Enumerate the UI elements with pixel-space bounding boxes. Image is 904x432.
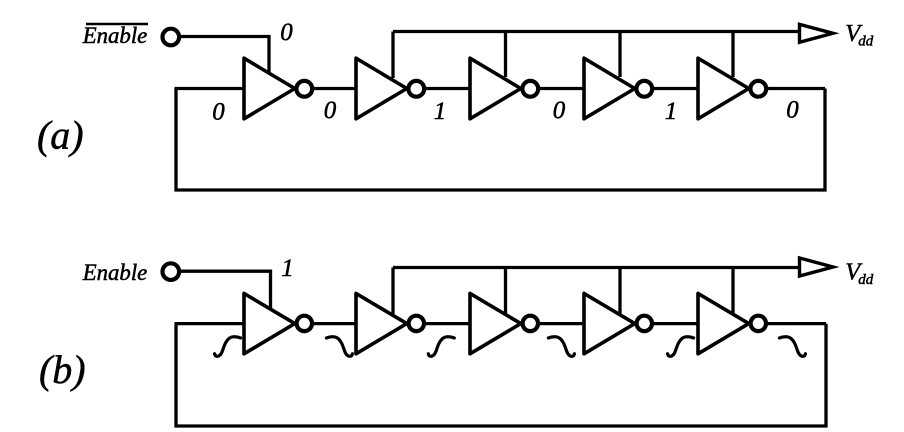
waveform falling (net 1b)	[326, 337, 352, 357]
inverter U4a	[584, 58, 652, 119]
power drop to U4b	[618, 268, 621, 315]
inverter U1b	[244, 293, 312, 353]
Vdd label (b)	[845, 259, 874, 289]
svg-text:(b): (b)	[39, 347, 86, 392]
wire U1a to U2a	[312, 87, 356, 90]
svg-text:0: 0	[324, 97, 337, 124]
terminal pad (a)	[163, 29, 180, 46]
power drop to U5b	[731, 268, 734, 315]
label (b)	[39, 347, 86, 392]
inverter U1a	[244, 58, 312, 119]
wire U3a to U4a	[538, 87, 584, 90]
wire U3b to U4b	[538, 322, 584, 325]
node label 0 (net 5)	[786, 97, 799, 124]
waveform rising (net 4b)	[668, 337, 694, 357]
wire U1b to U2b	[312, 322, 356, 325]
svg-text:0: 0	[212, 99, 225, 126]
wire U4b to U5b	[652, 322, 698, 325]
power drop to U5a	[731, 32, 734, 78]
node label 1 (net 2)	[434, 98, 447, 125]
node label 1 (net 4)	[665, 98, 678, 125]
node label 1 (enable net b)	[281, 255, 294, 282]
inverter U3a	[470, 58, 538, 119]
svg-text:0: 0	[786, 97, 799, 124]
wire U5a output to loop	[766, 87, 825, 90]
Vdd label (a)	[845, 20, 874, 50]
power rail (b)	[393, 266, 800, 269]
net Enable-bar label	[82, 23, 148, 48]
svg-text:1: 1	[665, 98, 678, 125]
inverter U3b	[470, 293, 538, 353]
wire enable to U1b input top	[179, 271, 270, 308]
svg-text:(a): (a)	[37, 113, 84, 158]
inverter U4b	[584, 293, 652, 353]
svg-text:1: 1	[434, 98, 447, 125]
svg-text:dd: dd	[858, 272, 874, 288]
wire input to U1b	[175, 322, 245, 325]
Vdd arrow (a)	[800, 24, 834, 42]
waveform rising (net 2b)	[428, 337, 454, 357]
wire feedback loop (b)	[176, 324, 826, 426]
inverter U5a	[698, 58, 766, 119]
svg-text:1: 1	[281, 255, 294, 282]
inverter U2a	[356, 58, 424, 119]
node label 0 (U1a input)	[212, 99, 225, 126]
svg-text:Enable: Enable	[82, 260, 148, 285]
svg-text:Enable: Enable	[82, 23, 148, 48]
wire input to U1a	[175, 87, 245, 90]
power drop to U2a	[391, 32, 394, 79]
node label 0 (net 1)	[324, 97, 337, 124]
wire feedback loop (a)	[176, 89, 825, 191]
wire U2b to U3b	[424, 322, 470, 325]
net Enable label	[82, 260, 148, 285]
node label 0 (net 3)	[553, 97, 566, 124]
svg-text:0: 0	[553, 97, 566, 124]
svg-text:0: 0	[280, 19, 293, 46]
power rail (a)	[393, 30, 800, 33]
inverter U5b	[698, 293, 766, 353]
wire enable to U1a input top	[179, 37, 269, 74]
inverter U2b	[356, 293, 424, 353]
wire U5b output to loop	[766, 322, 826, 325]
power drop to U4a	[618, 32, 621, 78]
node label 0 (enable net a)	[280, 19, 293, 46]
label (a)	[37, 113, 84, 158]
power drop to U3a	[504, 32, 507, 78]
power drop to U3b	[504, 268, 507, 315]
svg-text:dd: dd	[858, 34, 874, 50]
waveform rising (node U1b input)	[215, 337, 241, 357]
power drop to U2b	[391, 268, 394, 315]
wire U4a to U5a	[652, 87, 698, 90]
waveform falling (net 3b)	[548, 337, 574, 357]
terminal pad (b)	[163, 263, 180, 280]
Vdd arrow (b)	[800, 258, 834, 276]
waveform falling (net 5b)	[779, 337, 805, 357]
wire U2a to U3a	[424, 87, 470, 90]
